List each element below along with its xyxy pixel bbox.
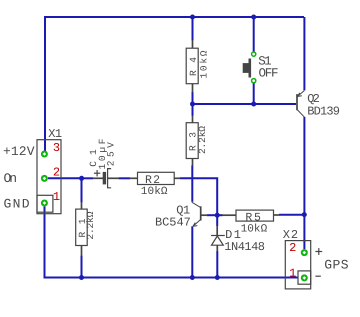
svg-text:1: 1: [53, 190, 60, 204]
svg-text:25V: 25V: [106, 142, 117, 166]
svg-text:2.2kΩ: 2.2kΩ: [197, 126, 208, 154]
svg-text:10kΩ: 10kΩ: [199, 50, 210, 78]
svg-text:1N4148: 1N4148: [224, 240, 265, 254]
svg-text:BC547: BC547: [155, 216, 191, 230]
svg-text:2.2kΩ: 2.2kΩ: [85, 211, 96, 239]
svg-text:10kΩ: 10kΩ: [241, 223, 268, 235]
svg-text:2: 2: [289, 241, 296, 255]
svg-text:On: On: [4, 171, 18, 186]
svg-text:3: 3: [53, 141, 60, 155]
svg-text:BD139: BD139: [307, 104, 340, 118]
svg-text:GND: GND: [4, 197, 30, 212]
svg-text:OFF: OFF: [259, 66, 279, 80]
svg-text:X1: X1: [48, 127, 62, 141]
svg-text:GPS: GPS: [324, 257, 349, 272]
svg-text:2: 2: [53, 166, 60, 180]
svg-text:1: 1: [289, 267, 296, 281]
svg-text:+12V: +12V: [3, 144, 35, 159]
svg-text:X2: X2: [283, 228, 298, 242]
svg-text:10kΩ: 10kΩ: [141, 186, 168, 198]
